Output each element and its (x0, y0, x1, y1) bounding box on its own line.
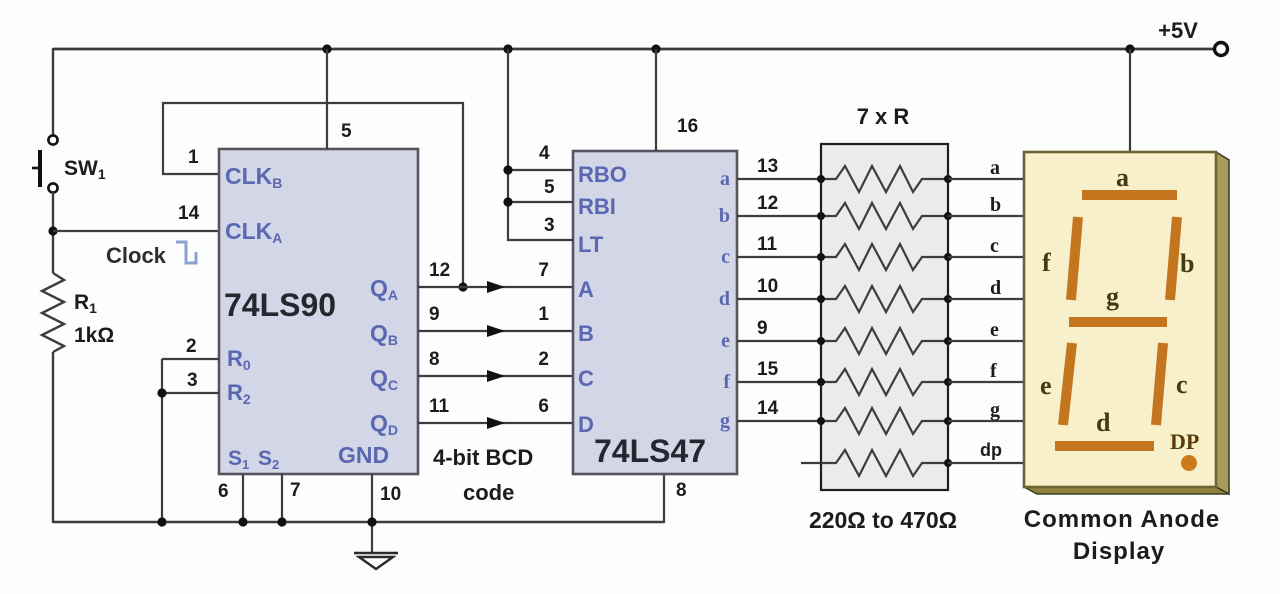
wire RBI pin5 (508, 201, 573, 203)
svg-text:b: b (1180, 249, 1194, 278)
ground (354, 552, 398, 555)
segment e (1063, 343, 1072, 425)
resistor Re (821, 328, 948, 354)
svg-text:7 x R: 7 x R (857, 104, 910, 129)
svg-text:f: f (1042, 248, 1051, 277)
wire QA feedback loop to CLKB pin1 (163, 103, 463, 287)
resistor Rc (821, 244, 948, 270)
wire segment output pin 14 (737, 420, 821, 422)
resistor Rdp (821, 450, 948, 476)
svg-text:c: c (1176, 370, 1188, 399)
svg-text:b: b (990, 194, 1001, 216)
svg-text:1kΩ: 1kΩ (74, 324, 114, 347)
svg-text:f: f (990, 360, 997, 382)
segment d (1055, 441, 1154, 451)
svg-text:RBI: RBI (578, 194, 616, 219)
svg-text:e: e (721, 330, 730, 352)
svg-text:10: 10 (757, 276, 778, 297)
svg-text:14: 14 (178, 203, 200, 224)
node pin2/pin3 tie (157, 388, 166, 397)
svg-text:code: code (463, 480, 514, 505)
wire reset pins to ground rail (161, 359, 163, 523)
svg-text:GND: GND (338, 442, 389, 468)
wire dp stub (801, 462, 821, 464)
svg-text:4-bit BCD: 4-bit BCD (433, 445, 533, 470)
wire segment output pin 13 (737, 178, 821, 180)
wire pin3 R2 (162, 392, 219, 394)
svg-text:A: A (578, 277, 594, 302)
node loop joins QA wire (458, 282, 467, 291)
wire to display segment f (948, 381, 1024, 383)
svg-text:3: 3 (544, 215, 555, 236)
node RBO tie (503, 165, 512, 174)
resistor R1 (42, 273, 64, 352)
resistor Rd (821, 286, 948, 312)
svg-text:a: a (1116, 163, 1129, 192)
svg-text:SW1: SW1 (64, 157, 106, 182)
segment a (1082, 190, 1177, 200)
node RBO/RBI/LT junction on rail (503, 44, 512, 53)
IC U1 74LS90 (219, 149, 418, 474)
segment c (1156, 343, 1163, 425)
svg-text:7: 7 (538, 260, 549, 281)
svg-text:8: 8 (676, 480, 687, 501)
svg-text:4: 4 (539, 143, 550, 164)
node pin5 junction on rail (322, 44, 331, 53)
svg-text:g: g (720, 410, 730, 432)
svg-text:e: e (990, 319, 999, 341)
svg-text:f: f (723, 371, 730, 393)
wire to display segment g (948, 420, 1024, 422)
node pin6 to rail (238, 517, 247, 526)
svg-text:9: 9 (429, 304, 440, 325)
wire QC to C (418, 375, 573, 377)
wire RBO/RBI/LT pullup (508, 49, 573, 240)
terminal +5V (1215, 43, 1228, 56)
svg-text:6: 6 (538, 396, 549, 417)
svg-text:2: 2 (186, 336, 197, 357)
svg-text:R1: R1 (74, 291, 97, 316)
resistor Rf (821, 369, 948, 395)
svg-text:74LS90: 74LS90 (224, 287, 336, 323)
wire pin5 Vcc (326, 49, 328, 149)
svg-text:DP: DP (1170, 429, 1199, 454)
svg-text:11: 11 (757, 234, 778, 255)
svg-text:220Ω to 470Ω: 220Ω to 470Ω (809, 507, 957, 533)
wire pin2 R0 (162, 358, 219, 360)
svg-text:12: 12 (429, 260, 450, 281)
display common anode 7-segment (1216, 152, 1229, 494)
wire to display segment dp (948, 462, 1024, 464)
wire segment output pin 11 (737, 256, 821, 258)
IC U2 74LS47 (573, 151, 737, 474)
svg-text:5: 5 (341, 121, 352, 142)
svg-text:13: 13 (757, 156, 778, 177)
svg-text:74LS47: 74LS47 (594, 433, 706, 469)
switch SW1 (48, 135, 57, 144)
svg-text:RBO: RBO (578, 162, 627, 187)
resistor Rg (821, 408, 948, 434)
svg-text:c: c (990, 235, 999, 257)
svg-text:g: g (990, 399, 1000, 421)
wire segment output pin 12 (737, 215, 821, 217)
wire pin10 GND (371, 474, 373, 553)
wire to display segment a (948, 178, 1024, 180)
wire SW1 to R1 (52, 192, 54, 273)
svg-text:dp: dp (980, 440, 1002, 460)
svg-text:d: d (990, 277, 1001, 299)
svg-text:Display: Display (1073, 538, 1165, 565)
node R0 tie to rail (157, 517, 166, 526)
node display junction on rail (1125, 44, 1134, 53)
svg-text:10: 10 (380, 484, 401, 505)
svg-text:5: 5 (544, 177, 555, 198)
wire segment output pin 10 (737, 298, 821, 300)
svg-text:LT: LT (578, 232, 604, 257)
svg-text:3: 3 (187, 370, 198, 391)
wire QD to D (418, 422, 573, 424)
svg-text:d: d (719, 288, 730, 310)
svg-text:7: 7 (290, 480, 301, 501)
svg-text:Common Anode: Common Anode (1024, 506, 1220, 533)
resistor Ra (821, 166, 948, 192)
svg-text:g: g (1106, 282, 1119, 311)
wire ground rail bottom (53, 521, 664, 523)
segment g (1069, 317, 1167, 327)
node pin10 to rail (367, 517, 376, 526)
wire pin16 Vcc (655, 49, 657, 151)
node pin16 junction on rail (651, 44, 660, 53)
wire RBO pin4 (508, 169, 573, 171)
svg-text:Clock: Clock (106, 243, 167, 268)
wire to display segment c (948, 256, 1024, 258)
segment f (1071, 217, 1078, 300)
wire segment output pin 9 (737, 340, 821, 342)
wire pin7 S2 (281, 474, 283, 523)
node clock branch (48, 226, 57, 235)
wire segment output pin 15 (737, 381, 821, 383)
wire rail up to 74LS47 pin8 (663, 474, 665, 523)
wire to display segment d (948, 298, 1024, 300)
wire QB to B (418, 330, 573, 332)
wire R1 to bottom rail (52, 352, 54, 523)
svg-text:16: 16 (677, 116, 698, 137)
svg-text:14: 14 (757, 398, 779, 419)
svg-text:1: 1 (538, 304, 549, 325)
svg-text:C: C (578, 366, 594, 391)
svg-text:e: e (1040, 371, 1052, 400)
node RBI tie (503, 197, 512, 206)
wire display Vcc (1129, 49, 1131, 152)
wire QA to A (418, 286, 573, 288)
svg-text:d: d (1096, 408, 1111, 437)
svg-text:6: 6 (218, 481, 229, 502)
svg-text:B: B (578, 321, 594, 346)
svg-text:b: b (719, 205, 730, 227)
svg-text:9: 9 (757, 318, 768, 339)
wire to display segment e (948, 340, 1024, 342)
clock pulse symbol (176, 242, 196, 263)
segment b (1170, 217, 1177, 300)
svg-text:a: a (720, 168, 730, 190)
svg-text:+5V: +5V (1158, 18, 1198, 43)
resistor Rb (821, 203, 948, 229)
svg-text:2: 2 (538, 349, 549, 370)
wire to display segment b (948, 215, 1024, 217)
svg-text:1: 1 (188, 147, 199, 168)
wire left rail top (52, 48, 54, 135)
svg-text:11: 11 (429, 396, 450, 417)
node pin7 to rail (277, 517, 286, 526)
svg-text:a: a (990, 157, 1000, 179)
resistor network box 7xR (821, 144, 948, 490)
svg-text:15: 15 (757, 359, 779, 380)
wire pin6 S1 (242, 474, 244, 523)
svg-text:8: 8 (429, 349, 440, 370)
svg-text:c: c (721, 246, 730, 268)
svg-text:D: D (578, 412, 594, 437)
svg-text:12: 12 (757, 193, 778, 214)
wire clock to CLKA pin14 (53, 230, 219, 232)
wire +5V top rail (53, 48, 1213, 51)
